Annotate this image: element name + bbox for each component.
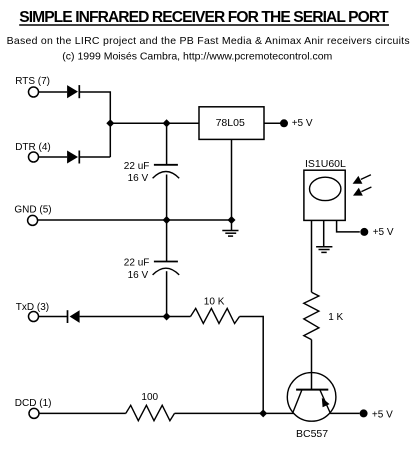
terminal RTS (7) <box>15 76 50 97</box>
regulator U1 78L05 <box>199 107 264 140</box>
transistor Q1 BC557 <box>287 373 336 440</box>
svg-text:+5 V: +5 V <box>292 118 313 129</box>
svg-text:78L05: 78L05 <box>216 117 245 129</box>
wire C2 top lead <box>166 220 168 261</box>
wire RTS to diode <box>39 91 68 93</box>
svg-text:22 uF: 22 uF <box>124 161 150 172</box>
svg-text:16 V: 16 V <box>128 270 149 281</box>
wire regulator output <box>264 122 281 124</box>
wire R1 to DCD rail corner <box>240 317 264 414</box>
wire diode D1 to corner <box>79 92 110 157</box>
svg-text:IS1U60L: IS1U60L <box>305 158 346 170</box>
wire C1 top lead <box>166 123 168 164</box>
wire junction to R1 <box>167 316 191 318</box>
svg-text:GND (5): GND (5) <box>14 204 51 215</box>
wire IR module pin 2 (gnd) <box>323 220 325 246</box>
ground symbol (regulator) <box>222 220 238 236</box>
terminal GND (5) <box>14 204 51 225</box>
svg-text:100: 100 <box>141 392 158 403</box>
junction node at diode merge <box>106 119 114 127</box>
diode D1 (RTS) <box>67 85 79 98</box>
svg-text:1 K: 1 K <box>328 312 343 323</box>
wire C2 bottom lead <box>166 271 168 316</box>
resistor R3 1K <box>304 292 344 339</box>
svg-text:22 uF: 22 uF <box>124 258 150 269</box>
svg-text:SIMPLE INFRARED RECEIVER FOR T: SIMPLE INFRARED RECEIVER FOR THE SERIAL … <box>19 9 389 26</box>
wire DCD to R2 <box>39 412 126 414</box>
wire rail to regulator <box>110 122 199 124</box>
wire TxD to diode <box>39 316 68 318</box>
wire diode D2 to corner <box>79 156 110 158</box>
junction node at collector <box>259 409 267 417</box>
svg-text:Based on the LIRC project and: Based on the LIRC project and the PB Fas… <box>7 35 410 47</box>
resistor R1 10K <box>191 296 240 323</box>
wire regulator ground pin <box>231 139 233 220</box>
svg-text:16 V: 16 V <box>128 173 149 184</box>
terminal DCD (1) <box>15 398 52 418</box>
svg-text:DCD (1): DCD (1) <box>15 398 52 409</box>
junction node C1/C2 at ground rail <box>163 216 171 224</box>
title <box>19 9 389 26</box>
junction node at C2 bottom <box>163 313 171 321</box>
wire ground rail <box>38 219 232 221</box>
IR module IS1U60L <box>304 158 346 220</box>
junction node at C1 top <box>163 119 171 127</box>
wire IR module pin 1 (out) <box>311 220 313 292</box>
ground symbol (IR module) <box>316 247 332 253</box>
capacitor C1 22uF 16V <box>124 161 179 184</box>
svg-text:+5 V: +5 V <box>372 409 393 420</box>
svg-text:(c) 1999 Moisés Cambra, http:/: (c) 1999 Moisés Cambra, http://www.pcrem… <box>62 50 332 62</box>
wire C1 bottom lead <box>166 175 168 221</box>
diode D3 (TxD) <box>68 310 80 323</box>
node +5V (regulator output) <box>280 118 313 129</box>
svg-text:BC557: BC557 <box>296 428 328 440</box>
node +5V (IR module) <box>360 227 394 238</box>
junction node at regulator ground <box>228 216 236 224</box>
IR ray arrow 2 <box>353 187 371 196</box>
svg-text:RTS (7): RTS (7) <box>15 76 50 87</box>
node +5V (emitter) <box>360 409 393 420</box>
wire IR module pin 3 (vcc) <box>337 220 360 232</box>
svg-text:10 K: 10 K <box>204 296 225 307</box>
wire R3 to transistor base <box>311 340 313 390</box>
resistor R2 100 <box>126 392 175 421</box>
terminal TxD (3) <box>16 302 49 322</box>
terminal DTR (4) <box>15 142 51 162</box>
capacitor C2 22uF 16V <box>124 258 179 281</box>
diode D2 (DTR) <box>67 151 79 164</box>
svg-text:+5 V: +5 V <box>373 227 394 238</box>
wire transistor emitter to +5V <box>330 412 360 414</box>
IR ray arrow 1 <box>353 175 371 184</box>
wire junction to transistor collector <box>263 412 294 414</box>
wire R2 to junction <box>175 412 264 414</box>
wire DTR to diode <box>39 156 68 158</box>
wire diode D3 to junction <box>80 316 167 318</box>
svg-text:DTR (4): DTR (4) <box>15 142 51 153</box>
